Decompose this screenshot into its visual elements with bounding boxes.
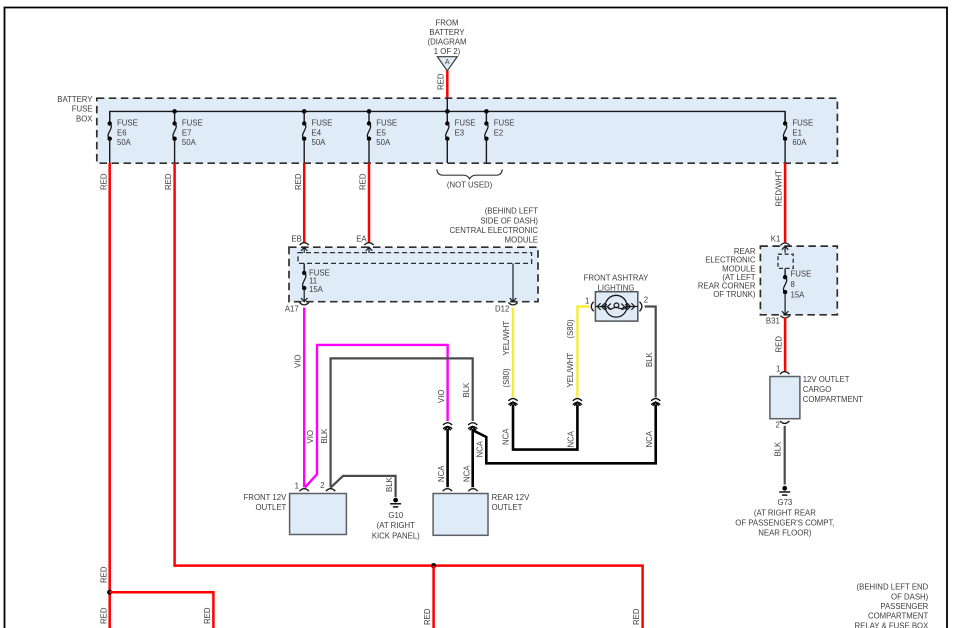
label FRONT ASHTRAY LIGHTING (584, 274, 649, 293)
pin EA arrow into module (366, 247, 372, 253)
svg-text:2: 2 (320, 481, 324, 490)
svg-text:FUSE: FUSE (117, 119, 138, 128)
inner sub-box of CEM (298, 253, 532, 264)
ground G73 (735, 486, 834, 538)
svg-text:1: 1 (295, 482, 299, 491)
svg-text:REAR 12V: REAR 12V (492, 493, 531, 502)
svg-text:RED: RED (99, 607, 108, 624)
svg-text:E2: E2 (494, 128, 504, 137)
svg-text:E3: E3 (455, 128, 465, 137)
svg-text:BLK: BLK (645, 351, 654, 367)
svg-text:12V OUTLET: 12V OUTLET (803, 375, 850, 384)
svg-text:RED: RED (99, 566, 108, 583)
svg-text:E7: E7 (182, 128, 192, 137)
svg-text:RED: RED (164, 173, 173, 190)
svg-text:BLK: BLK (385, 476, 394, 492)
svg-text:2: 2 (644, 296, 648, 305)
svg-text:FRONT ASHTRAY: FRONT ASHTRAY (584, 274, 649, 283)
svg-text:50A: 50A (117, 138, 132, 147)
label FRONT 12V OUTLET (244, 493, 288, 512)
wire NCA from connector to rear outlet pin 2 with arrow (470, 427, 476, 431)
svg-text:RED: RED (359, 173, 368, 190)
label BATTERY FUSE BOX (57, 95, 93, 123)
svg-text:YEL/WHT: YEL/WHT (502, 321, 511, 356)
pin D12 connector arc (508, 303, 517, 305)
svg-text:E1: E1 (792, 128, 802, 137)
svg-text:1: 1 (776, 365, 780, 374)
wire from fuse 8 to pin B31 with arrow (782, 292, 788, 315)
wire BLK from front outlet pin 2 to ground G10 (331, 476, 396, 497)
wire BLK from front outlet pin 2 loop to connector (330, 358, 473, 487)
arrowhead NCA at lamp pin2 connector (653, 402, 659, 406)
svg-text:FUSE: FUSE (376, 119, 397, 128)
svg-text:BLK: BLK (462, 382, 471, 398)
svg-text:RED: RED (632, 608, 641, 625)
rear outlet pin 1 connector arc (443, 489, 452, 491)
svg-text:SIDE OF DASH): SIDE OF DASH) (480, 216, 538, 225)
wire NCA from S80 connector to lamp pin1 connector (U path) (513, 404, 577, 449)
fuse 11 15A inside CEM (302, 263, 330, 294)
wire inside CEM to pin D12 with arrow (510, 263, 516, 301)
label (BEHIND LEFT SIDE OF DASH) CENTRAL ELECTRONIC MODULE (449, 207, 538, 245)
svg-text:PASSENGER: PASSENGER (880, 602, 928, 611)
svg-text:E4: E4 (312, 128, 322, 137)
svg-text:FUSE: FUSE (455, 119, 476, 128)
junction on bus at E3 (445, 109, 450, 114)
svg-text:FUSE: FUSE (494, 119, 515, 128)
svg-text:VIO: VIO (293, 355, 302, 368)
svg-text:(DIAGRAM: (DIAGRAM (428, 37, 467, 46)
svg-text:A: A (445, 59, 450, 66)
pin EB connector arc (300, 243, 309, 245)
front outlet pin 1 connector arc (300, 489, 309, 491)
svg-text:E6: E6 (117, 128, 127, 137)
wire bus inside fuse box (110, 111, 785, 123)
svg-text:VIO: VIO (306, 430, 315, 443)
svg-text:NCA: NCA (476, 440, 485, 457)
wire RED from fuse E5 to CEM pin EA (368, 163, 371, 242)
svg-text:NCA: NCA (437, 465, 446, 482)
wire RED from fuse E4 to CEM pin EB (303, 163, 306, 242)
svg-text:(BEHIND LEFT: (BEHIND LEFT (485, 207, 539, 216)
pin EA connector arc (364, 243, 373, 245)
svg-text:YEL/WHT: YEL/WHT (566, 353, 575, 388)
pin B31 connector arc (780, 316, 789, 318)
svg-text:RELAY & FUSE BOX: RELAY & FUSE BOX (854, 621, 929, 628)
wire RED drop from bottom bus at x=433.6 (432, 566, 435, 628)
fuse 8 15A inside REM (783, 268, 811, 299)
svg-text:EB: EB (291, 234, 301, 243)
svg-text:NCA: NCA (645, 430, 654, 447)
pin EB arrow into module (301, 247, 307, 253)
in-line connector S80 (lamp side) (573, 399, 582, 405)
svg-text:RED: RED (774, 336, 783, 353)
svg-text:VIO: VIO (437, 390, 446, 403)
inner sub-box of REM (778, 254, 793, 268)
fuse E1 60A (783, 111, 813, 163)
junction at E6 wire bottom branch (107, 590, 112, 595)
front 12V outlet box (290, 494, 347, 535)
wire VIO from front outlet pin 1 to S81 connector (loop to rear outlet) (305, 345, 448, 488)
svg-text:(AT RIGHT: (AT RIGHT (377, 521, 415, 530)
svg-text:RED: RED (99, 173, 108, 190)
svg-text:RED/WHT: RED/WHT (774, 170, 783, 207)
pin K1 connector arc (780, 243, 789, 245)
svg-text:2: 2 (776, 421, 780, 430)
rear outlet pin 2 connector arc (468, 489, 477, 491)
svg-text:FROM: FROM (436, 18, 459, 27)
cargo outlet pin 1 connector arc (780, 372, 789, 374)
svg-text:15A: 15A (791, 290, 806, 299)
svg-text:CENTRAL ELECTRONIC: CENTRAL ELECTRONIC (449, 226, 538, 235)
svg-text:FUSE: FUSE (791, 269, 812, 278)
svg-text:OF DASH): OF DASH) (891, 592, 929, 601)
fuse E7 50A (172, 111, 202, 163)
svg-text:FRONT 12V: FRONT 12V (244, 493, 288, 502)
label REAR 12V OUTLET (492, 493, 531, 512)
svg-text:50A: 50A (376, 138, 391, 147)
svg-text:FUSE: FUSE (792, 119, 813, 128)
lamp bulb symbol (595, 295, 637, 317)
svg-text:1 OF 2): 1 OF 2) (434, 47, 461, 56)
wire NCA branch from rear pin2 to ashtray lamp pin 2 (473, 404, 656, 463)
wire NCA from connector to rear outlet pin 1 with arrow (445, 427, 451, 431)
svg-text:FUSE: FUSE (312, 119, 333, 128)
in-line connector S80 (D12 side) (508, 399, 517, 405)
svg-text:(BEHIND LEFT END: (BEHIND LEFT END (857, 583, 929, 592)
svg-text:OUTLET: OUTLET (492, 503, 523, 512)
fuse E3 (not used) (445, 111, 475, 163)
svg-text:OUTLET: OUTLET (256, 503, 287, 512)
in-line connector BLK/NCA (468, 423, 477, 429)
junction on bus at E5 (367, 109, 372, 114)
pin K1 arrow into module (782, 246, 788, 253)
svg-text:50A: 50A (182, 138, 197, 147)
svg-text:(S80): (S80) (566, 319, 575, 338)
wire RED/WHT from fuse E1 to REM pin K1 (784, 163, 787, 242)
front outlet pin 2 connector arc (326, 489, 335, 491)
svg-text:60A: 60A (792, 138, 807, 147)
svg-text:RED: RED (423, 608, 432, 625)
svg-text:OF PASSENGER'S COMPT,: OF PASSENGER'S COMPT, (735, 519, 834, 528)
svg-text:E5: E5 (376, 128, 386, 137)
svg-text:COMPARTMENT: COMPARTMENT (868, 612, 929, 621)
wire VIO from A17 to front outlet pin 1 (303, 308, 305, 488)
svg-text:BATTERY: BATTERY (57, 95, 93, 104)
svg-text:NCA: NCA (462, 465, 471, 482)
svg-text:8: 8 (791, 280, 795, 289)
svg-text:(NOT USED): (NOT USED) (447, 181, 493, 190)
lamp pin 2 connector arc (640, 302, 642, 311)
svg-text:NCA: NCA (567, 430, 576, 447)
in-line connector BLK/NCA (lamp pin2) (651, 399, 660, 405)
fuse E5 50A (367, 111, 397, 163)
svg-text:BLK: BLK (320, 428, 329, 444)
junction on bus at E7 (172, 109, 177, 114)
svg-text:BOX: BOX (76, 114, 93, 123)
svg-text:BATTERY: BATTERY (429, 28, 465, 37)
svg-text:(AT RIGHT REAR: (AT RIGHT REAR (754, 508, 816, 517)
svg-text:NCA: NCA (502, 428, 511, 445)
battery fuse box (dashed) (97, 98, 838, 163)
junction on bus at E2 (484, 109, 489, 114)
svg-text:G73: G73 (778, 498, 793, 507)
svg-text:K1: K1 (771, 234, 781, 243)
pin A17 connector arc (300, 303, 309, 305)
svg-text:NEAR FLOOR): NEAR FLOOR) (758, 529, 812, 538)
wire RED from fuse E7 down and across bottom (175, 163, 643, 628)
rear electronic module (dashed box) (760, 246, 837, 315)
lamp pin 1 connector arc (591, 302, 593, 311)
svg-text:EA: EA (356, 234, 367, 243)
svg-text:15A: 15A (309, 285, 324, 294)
svg-text:RED: RED (203, 607, 212, 624)
wire BLK from cargo outlet pin 2 to ground G73 (784, 426, 786, 485)
arrowhead NCA at D12 connector (510, 402, 516, 406)
wire battery drop inside box (446, 98, 448, 111)
12V outlet cargo compartment box (770, 377, 800, 419)
svg-text:KICK PANEL): KICK PANEL) (372, 531, 420, 540)
label (BEHIND LEFT END OF DASH) PASSENGER COMPARTMENT RELAY & FUSE BOX (854, 583, 929, 628)
wire from fuse 11 to pin A17 with arrow (301, 288, 307, 302)
wire YEL/WHT from D12 to S80 connector (512, 308, 514, 398)
svg-text:1: 1 (585, 296, 589, 305)
svg-text:CARGO: CARGO (803, 385, 832, 394)
node FROM BATTERY (DIAGRAM 1 OF 2) label (428, 18, 467, 56)
svg-text:MODULE: MODULE (505, 236, 538, 245)
label 12V OUTLET CARGO COMPARTMENT (803, 375, 864, 404)
junction on bus at E4 (302, 109, 307, 114)
svg-text:RED: RED (437, 73, 446, 90)
svg-text:OF TRUNK): OF TRUNK) (713, 290, 756, 299)
arrowhead NCA at lamp pin1 connector (574, 402, 580, 406)
svg-text:A17: A17 (285, 305, 299, 314)
fuse E4 50A (302, 111, 332, 163)
rear 12V outlet box (433, 494, 488, 536)
wire RED from fuse E6 down left side (108, 163, 111, 628)
cargo outlet pin 2 connector arc (780, 421, 789, 423)
svg-text:B31: B31 (766, 316, 780, 325)
in-line connector VIO/NCA (443, 423, 452, 429)
wire RED branch from E6 junction to x=213 (110, 592, 214, 628)
svg-text:G10: G10 (388, 511, 403, 520)
brace (NOT USED) under fuses E3/E2 (437, 169, 502, 189)
svg-text:D12: D12 (495, 305, 509, 314)
svg-text:BLK: BLK (774, 441, 783, 457)
ground G10 (372, 498, 420, 541)
front ashtray lighting lamp box (595, 292, 637, 321)
svg-text:FUSE: FUSE (72, 105, 93, 114)
svg-text:COMPARTMENT: COMPARTMENT (803, 395, 864, 404)
off-page connector triangle A (437, 57, 457, 71)
central electronic module U-CEM (dashed box) (289, 247, 538, 302)
svg-text:50A: 50A (312, 138, 327, 147)
fuse E2 (not used) (484, 111, 514, 163)
svg-text:RED: RED (294, 173, 303, 190)
wire YEL/WHT from S80 connector to lamp pin 1 (577, 307, 589, 398)
junction on bottom red bus at x=433.6 (431, 563, 436, 568)
wire RED from battery triangle to fuse box (446, 71, 449, 98)
wire RED from B31 to cargo outlet pin 1 (784, 318, 787, 371)
svg-text:FUSE: FUSE (182, 119, 203, 128)
wire BLK from lamp pin 2 down to connector (645, 307, 656, 398)
fuse E6 50A (108, 111, 138, 163)
label REAR ELECTRONIC MODULE (AT LEFT REAR CORNER OF TRUNK) (698, 247, 756, 299)
svg-text:(S80): (S80) (502, 368, 511, 387)
